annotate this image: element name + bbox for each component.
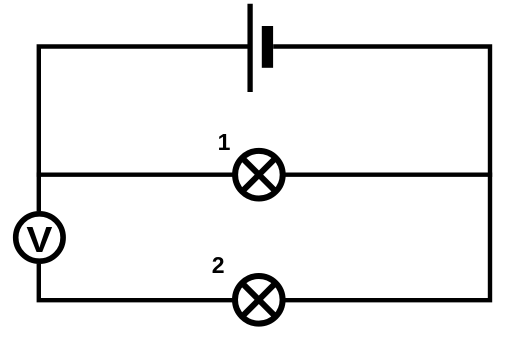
wire middle branch right segment	[285, 172, 492, 176]
lamp L2 circle	[235, 276, 283, 324]
voltmeter V letter	[26, 219, 52, 260]
wire top-right + right vertical + bottom-right segment	[273, 47, 490, 301]
wire middle branch left segment	[37, 172, 233, 176]
svg-text:1: 1	[218, 129, 231, 155]
lamp L1 cross	[242, 158, 276, 192]
svg-text:2: 2	[212, 252, 225, 278]
battery B1 long plate	[247, 4, 252, 92]
label 2 for lamp L2	[212, 252, 225, 278]
wire top-left + left vertical upper segment	[39, 47, 248, 212]
label 1 for lamp L1	[218, 129, 231, 155]
svg-text:V: V	[26, 219, 52, 260]
lamp L1 circle	[235, 151, 283, 199]
lamp L2 cross	[242, 283, 276, 317]
voltmeter V circle	[16, 214, 63, 261]
battery B1 short thick plate	[262, 26, 273, 68]
wire left vertical lower + bottom-left segment	[39, 264, 233, 301]
